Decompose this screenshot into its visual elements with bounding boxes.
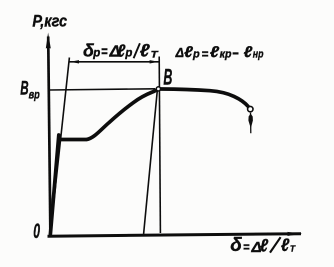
svg-text:нр: нр [253, 48, 264, 60]
svg-text:р: р [192, 49, 200, 61]
svg-text:Δ: Δ [175, 46, 184, 60]
svg-text:0: 0 [33, 219, 40, 243]
svg-text:Т: Т [290, 244, 296, 254]
svg-text:р: р [92, 48, 100, 60]
svg-text:=: = [243, 240, 250, 255]
svg-text:=: = [202, 46, 209, 61]
svg-text:=: = [101, 44, 108, 59]
svg-text:ℓ: ℓ [281, 235, 290, 255]
svg-text:В: В [163, 65, 172, 90]
svg-text:р: р [124, 47, 132, 59]
svg-text:ℓ: ℓ [140, 41, 151, 61]
svg-text:δ: δ [230, 235, 242, 256]
svg-text:вр: вр [29, 87, 40, 101]
svg-text:ℓ: ℓ [260, 236, 269, 256]
svg-text:кр: кр [220, 49, 232, 61]
svg-text:Р,кгс: Р,кгс [32, 12, 67, 30]
svg-text:В: В [20, 78, 28, 100]
